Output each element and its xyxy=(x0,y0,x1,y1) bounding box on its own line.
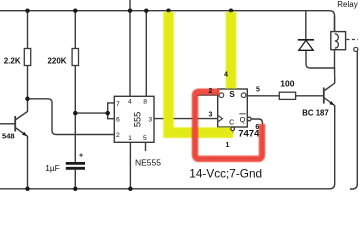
svg-text:6: 6 xyxy=(116,116,120,123)
node pin8 rail xyxy=(144,8,149,13)
svg-text:220K: 220K xyxy=(47,57,66,66)
clock triangle xyxy=(218,115,223,122)
wire relay coil top lead xyxy=(334,16,336,32)
wire 2.2K top xyxy=(27,11,29,49)
wire 7474 pin5 to resistor 100 xyxy=(247,95,279,97)
svg-text:548: 548 xyxy=(2,131,15,140)
svg-text:3: 3 xyxy=(209,111,213,118)
highlight red feedback loop xyxy=(195,92,262,159)
wire node to 555 pins 7 6 xyxy=(75,112,107,114)
svg-text:S: S xyxy=(229,90,235,99)
Q output glyph xyxy=(241,93,246,98)
relay K1 coil xyxy=(331,32,346,50)
node 2.2K rail xyxy=(25,8,30,13)
wire 555 pin3 to 7474 clock xyxy=(154,118,218,120)
wire relay contact down xyxy=(350,51,357,189)
node 555 pin7 pin6 xyxy=(105,111,110,116)
D input glyph xyxy=(219,93,224,98)
highlight yellow Vcc to pin4 xyxy=(226,12,237,88)
wire ground rail and right edge xyxy=(0,110,335,189)
svg-text:+: + xyxy=(79,153,83,160)
resistor R3 100 xyxy=(279,92,295,99)
wire 555 pin4 to rail xyxy=(129,11,131,97)
svg-text:5: 5 xyxy=(143,135,147,142)
wire stub above rail xyxy=(129,0,131,11)
wire 220K bottom through cap node xyxy=(74,66,76,163)
wire top supply rail xyxy=(0,11,335,32)
pin1 bubble xyxy=(231,127,235,131)
node Q1 collector xyxy=(25,97,30,102)
svg-text:Relay: Relay xyxy=(337,0,357,9)
node 220K rail xyxy=(73,8,78,13)
capacitor C1 1uF xyxy=(66,163,85,168)
node yellow2 rail xyxy=(229,8,234,13)
diode D1 xyxy=(298,39,314,41)
wire Vcc to 7474 pin1 under yellow xyxy=(169,11,233,133)
svg-text:1µF: 1µF xyxy=(45,163,60,173)
relay dashed link xyxy=(347,39,359,41)
op-amp U1 NE555 box xyxy=(114,96,154,142)
node dots xyxy=(25,8,233,191)
node 555 pin1 ground xyxy=(128,187,133,192)
svg-text:NE555: NE555 xyxy=(135,158,161,168)
svg-text:4: 4 xyxy=(128,99,132,106)
node cap 220K xyxy=(73,111,78,116)
svg-text:3: 3 xyxy=(148,116,152,123)
wire cap to ground rail xyxy=(74,170,76,189)
highlight yellow Vcc to pin1 xyxy=(169,12,234,133)
svg-text:Q: Q xyxy=(240,115,246,124)
wire 7474 Q-bar to D feedback xyxy=(195,95,263,159)
svg-text:4: 4 xyxy=(224,72,228,79)
svg-text:14-Vcc;7-Gnd: 14-Vcc;7-Gnd xyxy=(189,167,262,181)
svg-text:5: 5 xyxy=(256,87,260,94)
svg-text:7: 7 xyxy=(116,101,120,108)
node cap ground xyxy=(73,187,78,192)
wire relay coil bottom to collector xyxy=(334,50,336,68)
flip-flop U2 7474 box xyxy=(218,89,248,127)
svg-text:6: 6 xyxy=(255,124,259,131)
wire Vcc to 7474 pin4 under yellow xyxy=(230,11,232,89)
resistor R1 2.2K xyxy=(24,49,30,66)
pin1 bubble over highlight xyxy=(231,127,235,131)
wire diode bottom to collector node xyxy=(306,50,335,68)
transistor Q1 BC548 xyxy=(0,99,28,189)
resistor R2 220K xyxy=(72,49,78,66)
transistor Q2 BC187 xyxy=(324,77,335,112)
svg-text:1: 1 xyxy=(128,135,132,142)
svg-text:BC 187: BC 187 xyxy=(302,108,328,117)
wire 555 pin8 to rail xyxy=(145,11,147,97)
svg-text:100: 100 xyxy=(280,79,294,89)
wire 555 pin1 to ground xyxy=(129,142,131,189)
Q-bar bubble xyxy=(247,117,251,121)
relay contact circle xyxy=(354,47,358,51)
wire 555 pin7 pin6 bracket xyxy=(108,103,115,119)
wire resistor 100 to Q2 base xyxy=(296,95,324,97)
svg-text:C: C xyxy=(229,120,234,127)
svg-text:8: 8 xyxy=(143,99,147,106)
svg-text:2: 2 xyxy=(116,132,120,139)
wire rail branch to diode xyxy=(305,11,307,40)
wire 555 pin5 stub xyxy=(145,142,147,151)
svg-text:555: 555 xyxy=(133,112,143,127)
node pin4 rail xyxy=(128,8,133,13)
svg-text:1: 1 xyxy=(226,142,230,149)
wire 220K top xyxy=(74,11,76,49)
Q-bar bubble over highlight xyxy=(247,117,251,121)
svg-text:2.2K: 2.2K xyxy=(4,57,21,66)
wire node to 555 pin2 xyxy=(28,99,115,135)
node yellow1 rail xyxy=(166,8,171,13)
node Q1 emitter ground xyxy=(25,187,30,192)
wire Q2 collector vertical xyxy=(334,68,336,77)
wire 2.2K bottom to node xyxy=(27,66,29,99)
svg-text:2: 2 xyxy=(209,88,213,95)
